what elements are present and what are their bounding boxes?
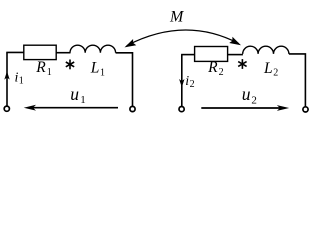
wire: left circuit top-left stub [6,51,24,53]
terminal 1 (left port, left) [4,106,9,111]
arrowhead right of M arc [229,37,241,45]
svg-text:1: 1 [19,76,24,87]
wire: R1 to L1 [56,52,70,54]
svg-text:M: M [169,9,185,26]
voltage arrow u1 (points left) [30,107,118,109]
dot mark (asterisk) of L1 [66,60,74,70]
svg-text:1: 1 [80,94,86,106]
svg-text:u: u [242,84,251,104]
voltage arrow u2 (points right) [201,107,283,109]
current arrow i1 (up) [4,71,9,79]
svg-text:u: u [70,84,79,104]
svg-text:1: 1 [47,67,52,78]
svg-text:2: 2 [190,79,195,90]
svg-text:R: R [35,59,46,76]
wire: R2 to L2 [228,54,243,56]
terminal 2' (right port, right) [303,107,308,112]
svg-text:2: 2 [273,68,278,79]
resistor R2 [195,47,228,62]
svg-text:2: 2 [251,94,257,106]
svg-text:L: L [90,60,100,77]
mutual coupling arc M [127,30,239,46]
resistor R1 [24,45,56,59]
wire: L2 to right corner and down [289,54,306,107]
wire: right circuit top-left stub [181,54,195,56]
current arrow i2 (down) [179,79,184,87]
wire: left circuit left vertical [6,52,8,106]
svg-text:2: 2 [219,67,224,78]
wire: L1 to right corner and down [116,53,133,106]
svg-text:1: 1 [100,68,105,79]
arrowhead left of M arc [125,39,137,47]
wire: right circuit left vertical [181,55,183,107]
svg-text:L: L [263,60,273,77]
svg-text:R: R [207,59,218,76]
terminal 2 (right port, left) [179,107,184,112]
inductor L2 [243,46,289,54]
dot mark (asterisk) of L2 [238,59,246,69]
inductor L1 [70,45,116,53]
terminal 1' (left port, right) [130,106,135,111]
